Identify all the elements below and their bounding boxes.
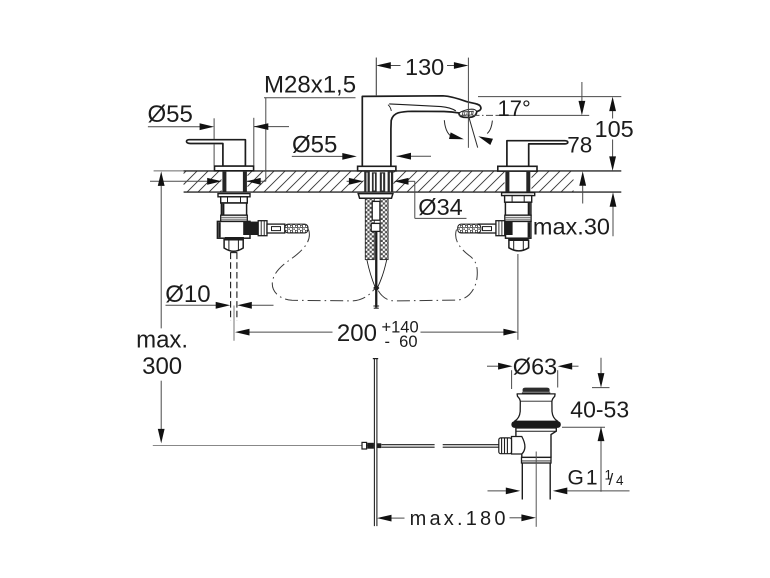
right handle escutcheon xyxy=(498,166,537,171)
left braided nipple xyxy=(285,224,308,233)
pop-up rod dashed (O10) xyxy=(230,253,232,321)
right valve bottom band xyxy=(508,238,528,241)
svg-text:Ø10: Ø10 xyxy=(165,281,210,308)
svg-text:200: 200 xyxy=(337,320,377,347)
dim M28x1,5: underline and leader xyxy=(264,97,356,99)
right connector fitting xyxy=(478,224,496,233)
center slot fitting xyxy=(372,201,380,220)
svg-text:G1: G1 xyxy=(568,466,600,489)
svg-text:78: 78 xyxy=(567,133,592,158)
center braided hose right xyxy=(380,199,388,260)
right valve lower body xyxy=(506,221,531,238)
dim max.300: vertical line xyxy=(160,186,162,329)
svg-text:130: 130 xyxy=(405,54,444,80)
svg-text:max.30: max.30 xyxy=(533,214,610,240)
right coupling xyxy=(509,240,529,251)
drain bottom collar xyxy=(522,457,552,463)
17deg tilted line xyxy=(468,115,478,148)
left handle escutcheon xyxy=(215,166,254,171)
arrows xyxy=(200,123,215,130)
right hose dash-dot curve xyxy=(377,230,477,301)
dim 130: extension lines xyxy=(375,58,377,95)
center shank right bar xyxy=(388,172,394,192)
dim 40-53: vertical segments xyxy=(600,358,602,374)
right shank bars xyxy=(505,172,509,192)
left valve tee block xyxy=(243,222,258,235)
spout outlet housing line xyxy=(459,109,477,113)
left handle lever xyxy=(187,140,246,167)
drain flare xyxy=(514,394,557,421)
center braided hose left xyxy=(365,199,374,260)
spout mousseur xyxy=(463,111,474,115)
pop-up rod upper end cap xyxy=(373,305,379,307)
svg-text:Ø63: Ø63 xyxy=(513,354,557,380)
hose funnel left line xyxy=(367,260,375,288)
dim O10: underline xyxy=(166,304,217,306)
dim 130: line segments xyxy=(391,65,401,67)
pop-up rod lower xyxy=(373,359,375,526)
left valve flange xyxy=(218,194,250,197)
dim 105: line segments xyxy=(612,111,614,119)
drain pop-up cap xyxy=(523,388,550,392)
drain rubber seal xyxy=(511,421,560,428)
dim O55 center: underline xyxy=(292,155,343,157)
svg-text:105: 105 xyxy=(595,116,634,142)
center shank inner rects xyxy=(372,172,377,191)
svg-text:Ø55: Ø55 xyxy=(148,101,193,128)
dim G1 1/4: left tail xyxy=(488,490,506,492)
right valve flange xyxy=(502,193,535,196)
spout base plate xyxy=(358,166,396,171)
hose funnel right line xyxy=(378,260,387,288)
spout inner corner tick xyxy=(388,105,391,111)
right valve thread band xyxy=(505,215,531,221)
dim max.30: tail below counter xyxy=(612,206,614,236)
dim O63: tails xyxy=(487,365,498,367)
left coupling xyxy=(224,240,243,252)
svg-text:17°: 17° xyxy=(498,96,531,121)
left connector fitting xyxy=(267,224,285,233)
left valve bottom band xyxy=(225,237,244,240)
right handle lever xyxy=(507,141,568,167)
left valve hex nut xyxy=(221,197,248,203)
dim 78: line above xyxy=(581,82,583,102)
svg-text:Ø55: Ø55 xyxy=(292,131,337,158)
drain centerline xyxy=(535,452,537,527)
17deg axis line xyxy=(459,114,497,116)
DIMENSIONS xyxy=(136,54,634,530)
left valve upper body xyxy=(221,203,246,215)
drain tailpipe xyxy=(521,463,523,500)
rod cross clamp xyxy=(362,442,367,449)
dim O55 left: extension lines xyxy=(213,118,215,139)
dim 200: line segments xyxy=(249,331,332,333)
countertop top line xyxy=(154,170,184,172)
spout chamfer line xyxy=(389,104,456,111)
svg-text:4: 4 xyxy=(616,473,624,488)
dim max.180: tails xyxy=(391,517,404,519)
horizontal linkage rod xyxy=(382,444,435,446)
svg-text:300: 300 xyxy=(142,353,182,380)
countertop bottom line xyxy=(184,191,622,193)
dim O10: right tail xyxy=(252,304,274,306)
svg-text:- 60: - 60 xyxy=(385,333,418,351)
dim 78: lower tail xyxy=(582,186,584,204)
drain knob xyxy=(499,438,512,454)
drain body xyxy=(516,428,556,458)
right valve tee block xyxy=(506,222,513,235)
right connector hex xyxy=(496,221,505,236)
spout body U1 xyxy=(362,96,481,167)
countertop hatch xyxy=(184,171,574,192)
hose junction knot xyxy=(373,284,379,291)
svg-text:/: / xyxy=(609,470,614,489)
17deg arcs xyxy=(444,120,450,136)
svg-text:max.: max. xyxy=(136,327,188,354)
right valve upper body xyxy=(505,202,531,215)
left hose dash-dot curve xyxy=(272,230,375,301)
center locknut xyxy=(358,194,393,199)
svg-text:M28x1,5: M28x1,5 xyxy=(264,72,356,99)
center rod block xyxy=(371,223,380,231)
dim O55 center: right tail xyxy=(397,155,432,157)
left valve lower body xyxy=(217,221,250,238)
right braided nipple xyxy=(458,224,481,233)
rod centerline xyxy=(233,306,235,341)
left connector hex xyxy=(258,221,267,236)
pop-up rod upper xyxy=(375,231,377,307)
svg-text:40-53: 40-53 xyxy=(570,397,629,423)
svg-text:max.180: max.180 xyxy=(410,508,509,530)
105 top reference line xyxy=(478,96,621,98)
left shank bars xyxy=(222,172,226,192)
dim M28/O34 left valve: left tail xyxy=(150,180,208,182)
right valve hex nut xyxy=(505,196,532,203)
drain elbow xyxy=(512,437,525,455)
dim G1 1/4: underline xyxy=(567,490,629,492)
dim 200: right extension line xyxy=(517,254,519,340)
left valve thread band xyxy=(221,215,248,221)
dim O34: tails and leader xyxy=(347,180,350,182)
dim O55 left: underline xyxy=(148,126,201,128)
bottom reference line xyxy=(153,444,374,446)
dim O63: extension lines xyxy=(511,370,513,389)
svg-text:Ø34: Ø34 xyxy=(418,194,462,220)
dim O55 left: right tail xyxy=(254,126,289,128)
spout centerline xyxy=(375,58,377,167)
center shank left bar xyxy=(364,172,370,192)
